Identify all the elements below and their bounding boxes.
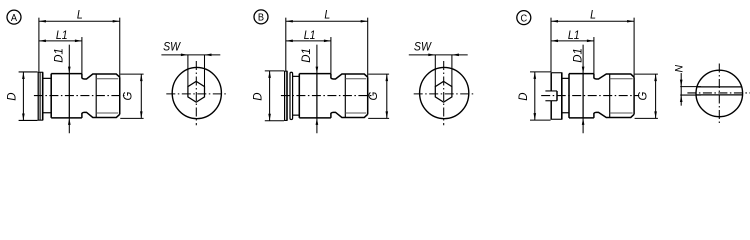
svg-text:A: A xyxy=(11,12,18,24)
svg-text:G: G xyxy=(120,92,134,101)
svg-text:SW: SW xyxy=(414,41,432,54)
svg-text:D1: D1 xyxy=(570,48,584,63)
svg-text:D: D xyxy=(4,92,18,101)
svg-text:C: C xyxy=(520,13,527,25)
svg-text:L1: L1 xyxy=(304,29,316,42)
svg-text:D: D xyxy=(516,92,530,101)
svg-text:L1: L1 xyxy=(56,29,68,42)
svg-text:G: G xyxy=(366,92,380,101)
svg-text:L: L xyxy=(77,9,83,22)
svg-text:N: N xyxy=(673,65,685,73)
svg-text:D1: D1 xyxy=(51,48,65,63)
svg-text:L: L xyxy=(590,9,596,22)
svg-text:G: G xyxy=(635,92,649,101)
svg-text:D: D xyxy=(250,92,264,101)
svg-text:L1: L1 xyxy=(568,29,580,42)
svg-text:SW: SW xyxy=(163,41,181,54)
svg-text:D1: D1 xyxy=(299,48,313,63)
svg-text:L: L xyxy=(324,9,330,22)
svg-text:B: B xyxy=(258,12,265,24)
